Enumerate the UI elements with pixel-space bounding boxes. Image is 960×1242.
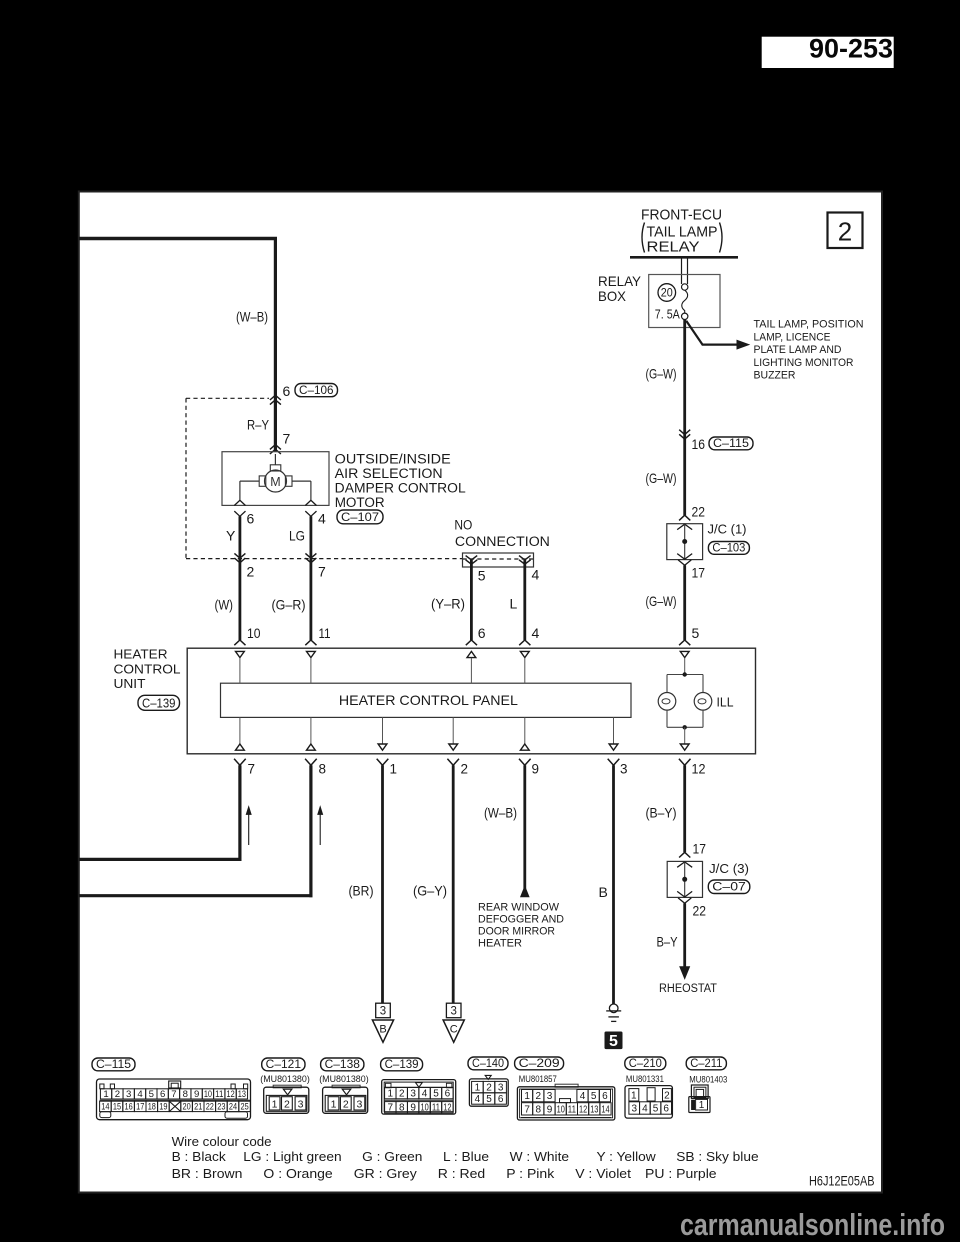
svg-text:B–Y: B–Y xyxy=(657,934,679,950)
svg-text:7: 7 xyxy=(171,1089,176,1100)
svg-text:RELAY: RELAY xyxy=(598,273,642,289)
svg-text:(W–B): (W–B) xyxy=(484,805,517,821)
connector C-209 pinout xyxy=(515,1057,564,1070)
svg-text:2: 2 xyxy=(536,1091,542,1102)
svg-text:(G–W): (G–W) xyxy=(646,593,677,609)
svg-text:4: 4 xyxy=(532,567,540,583)
svg-text:(B–Y): (B–Y) xyxy=(646,805,677,821)
svg-text:12: 12 xyxy=(692,762,706,777)
heater control panel box xyxy=(221,683,632,717)
svg-text:AIR SELECTION: AIR SELECTION xyxy=(335,466,443,481)
wire (G-Y) pin2 xyxy=(452,765,455,1003)
fuse 7.5A symbol xyxy=(682,284,688,290)
svg-text:1: 1 xyxy=(699,1100,705,1111)
ground symbol xyxy=(609,1004,618,1013)
svg-text:J/C (1): J/C (1) xyxy=(708,522,747,537)
svg-text:C–139: C–139 xyxy=(142,697,176,711)
svg-text:(G–Y): (G–Y) xyxy=(413,883,447,899)
svg-text:7: 7 xyxy=(248,762,256,777)
svg-text:CONTROL: CONTROL xyxy=(114,662,181,677)
svg-text:12: 12 xyxy=(443,1103,452,1114)
svg-text:23: 23 xyxy=(217,1101,225,1112)
svg-text:C–115: C–115 xyxy=(96,1059,131,1071)
svg-text:5: 5 xyxy=(486,1094,492,1105)
svg-text:(G–W): (G–W) xyxy=(646,470,677,486)
svg-text:7. 5A: 7. 5A xyxy=(655,307,680,322)
svg-text:3: 3 xyxy=(547,1091,553,1102)
svg-text:MU801857: MU801857 xyxy=(519,1074,557,1085)
wire pin8 exits left xyxy=(309,765,312,897)
svg-text:MU801403: MU801403 xyxy=(689,1074,727,1085)
svg-text:7: 7 xyxy=(524,1104,530,1115)
svg-text:CONNECTION: CONNECTION xyxy=(455,534,550,549)
svg-text:C–210: C–210 xyxy=(629,1058,662,1070)
svg-text:(G–W): (G–W) xyxy=(646,366,677,382)
svg-text:TAIL LAMP, POSITION: TAIL LAMP, POSITION xyxy=(754,319,864,331)
wire LG xyxy=(309,516,312,640)
svg-text:14: 14 xyxy=(601,1104,610,1115)
svg-text:1: 1 xyxy=(390,762,398,777)
fuse number circle 20 xyxy=(658,284,676,302)
svg-text:3: 3 xyxy=(298,1098,304,1110)
defogger feed arrow xyxy=(521,887,529,897)
lamp symbol right xyxy=(694,693,712,711)
svg-text:C–209: C–209 xyxy=(519,1058,560,1070)
wire (B-Y) pin12 xyxy=(683,765,686,852)
connector C-138 pinout xyxy=(321,1058,364,1071)
page number header 90-253 xyxy=(762,37,894,68)
svg-text:20: 20 xyxy=(661,288,673,300)
svg-text:25: 25 xyxy=(241,1101,249,1112)
svg-text:5: 5 xyxy=(478,568,486,584)
svg-text:1: 1 xyxy=(388,1089,394,1100)
svg-text:REAR WINDOW: REAR WINDOW xyxy=(478,901,560,913)
svg-text:6: 6 xyxy=(663,1104,669,1115)
svg-text:2: 2 xyxy=(486,1082,492,1093)
wire (BR) pin1 xyxy=(381,765,384,1003)
svg-text:C: C xyxy=(450,1024,458,1036)
chevrons pin 5 side xyxy=(466,556,478,560)
svg-text:11: 11 xyxy=(319,625,331,641)
svg-text:M: M xyxy=(270,475,280,489)
chevrons pin 4 side xyxy=(519,556,531,560)
svg-text:17: 17 xyxy=(693,841,707,857)
svg-text:9: 9 xyxy=(547,1104,553,1115)
svg-text:MOTOR: MOTOR xyxy=(335,495,385,510)
svg-text:(W): (W) xyxy=(215,597,234,613)
svg-text:RHEOSTAT: RHEOSTAT xyxy=(659,983,717,995)
svg-text:7: 7 xyxy=(283,431,291,447)
svg-text:14: 14 xyxy=(101,1101,110,1112)
svg-text:2: 2 xyxy=(461,762,469,777)
svg-text:RELAY: RELAY xyxy=(647,240,700,256)
svg-text:22: 22 xyxy=(692,504,706,520)
svg-text:90-253: 90-253 xyxy=(809,34,893,64)
svg-text:17: 17 xyxy=(136,1101,144,1112)
top edge pin triangles xyxy=(236,651,245,657)
svg-text:5: 5 xyxy=(653,1104,659,1115)
motor pin 4 fork xyxy=(305,500,316,505)
svg-text:2: 2 xyxy=(664,1090,670,1101)
svg-text:LG: LG xyxy=(289,528,305,544)
wire B pin3 to ground xyxy=(612,765,615,1004)
svg-text:5: 5 xyxy=(609,1033,618,1050)
svg-text:6: 6 xyxy=(602,1091,608,1102)
svg-text:16: 16 xyxy=(692,436,706,452)
svg-text:2: 2 xyxy=(115,1089,120,1100)
motor internal wires xyxy=(240,480,259,482)
svg-text:Y: Y xyxy=(226,528,236,544)
svg-text:9: 9 xyxy=(194,1089,199,1100)
svg-text:4: 4 xyxy=(137,1089,143,1100)
rheostat arrow xyxy=(680,967,690,979)
harness forks at heater pins 6 4 xyxy=(466,640,477,645)
svg-text:carmanualsonline.info: carmanualsonline.info xyxy=(680,1208,945,1242)
heater control unit box xyxy=(187,648,755,754)
svg-text:18: 18 xyxy=(148,1101,156,1112)
svg-text:4: 4 xyxy=(642,1104,648,1115)
svg-text:8: 8 xyxy=(183,1089,188,1100)
no-connection connector box xyxy=(463,553,534,567)
svg-text:2: 2 xyxy=(247,564,255,580)
svg-text:1: 1 xyxy=(524,1091,530,1102)
svg-text:C–121: C–121 xyxy=(266,1059,301,1071)
connector C-115 pin 16 chevrons xyxy=(679,430,690,435)
direction arrow on pin8 wire xyxy=(319,812,321,845)
svg-text:4: 4 xyxy=(532,625,540,641)
svg-text:UNIT: UNIT xyxy=(114,676,146,691)
svg-text:13: 13 xyxy=(590,1104,599,1115)
svg-text:2: 2 xyxy=(838,217,852,247)
connector label C-115 xyxy=(709,437,753,450)
svg-text:12: 12 xyxy=(226,1089,234,1100)
internal wires to panel (bottom) xyxy=(239,717,241,744)
connector C-121 pinout xyxy=(262,1058,305,1071)
harness fork at heater pin 5 xyxy=(679,640,690,645)
wire pin7 exits left xyxy=(238,765,241,861)
bus bar under FRONT-ECU xyxy=(630,256,738,259)
svg-text:12: 12 xyxy=(579,1104,588,1115)
wire (G-W) segment 3 xyxy=(683,565,686,640)
svg-text:9: 9 xyxy=(532,762,540,777)
svg-text:MU801331: MU801331 xyxy=(626,1074,664,1085)
svg-text:8: 8 xyxy=(399,1103,405,1114)
svg-text:(W–B): (W–B) xyxy=(236,309,268,325)
svg-text:C–140: C–140 xyxy=(472,1058,504,1070)
connector C-210 pinout xyxy=(625,1057,666,1070)
svg-text:C–115: C–115 xyxy=(713,438,749,450)
svg-text:11: 11 xyxy=(432,1103,441,1114)
svg-text:HEATER: HEATER xyxy=(114,647,168,662)
svg-text:C–106: C–106 xyxy=(299,385,334,397)
svg-text:(MU801380): (MU801380) xyxy=(260,1074,310,1085)
motor box OUTSIDE/INSIDE AIR SELECTION DAMPER CONTROL MOTOR xyxy=(222,452,329,506)
svg-text:3: 3 xyxy=(620,762,628,777)
svg-text:11: 11 xyxy=(215,1089,223,1100)
motor M symbol xyxy=(265,470,287,492)
svg-text:BR : Brown O : Orange GR :: BR : Brown O : Orange GR : Grey R : Red … xyxy=(172,1166,717,1181)
svg-text:NO: NO xyxy=(454,518,472,533)
svg-text:1: 1 xyxy=(103,1089,108,1100)
wire B-Y to rheostat xyxy=(683,903,686,968)
junction J/C(3) C-07 xyxy=(679,852,690,857)
svg-text:1: 1 xyxy=(272,1098,278,1110)
ILL lamps bracket xyxy=(667,674,703,676)
svg-text:Wire colour code: Wire colour code xyxy=(172,1134,272,1149)
svg-text:1: 1 xyxy=(331,1098,337,1110)
svg-text:19: 19 xyxy=(159,1101,167,1112)
svg-text:3: 3 xyxy=(380,1006,386,1018)
svg-text:10: 10 xyxy=(204,1089,212,1100)
connector label C-106 xyxy=(295,384,338,397)
zone box 2 xyxy=(828,213,863,249)
svg-text:7: 7 xyxy=(318,564,326,580)
svg-text:6: 6 xyxy=(160,1089,165,1100)
connector label C-139 xyxy=(138,695,180,710)
chevrons at dashed line pin 7 xyxy=(305,553,316,558)
direction arrow on pin7 wire xyxy=(248,812,250,845)
svg-text:DOOR MIRROR: DOOR MIRROR xyxy=(478,925,555,937)
svg-text:6: 6 xyxy=(498,1094,504,1105)
svg-text:3: 3 xyxy=(450,1006,456,1018)
svg-text:5: 5 xyxy=(149,1089,154,1100)
svg-text:21: 21 xyxy=(194,1101,202,1112)
connector C-139 pinout xyxy=(381,1058,423,1071)
svg-text:3: 3 xyxy=(126,1089,131,1100)
svg-text:3: 3 xyxy=(631,1104,637,1115)
svg-text:3: 3 xyxy=(498,1082,504,1093)
connector C-106 pin 6 chevrons xyxy=(270,395,281,400)
svg-text:TAIL LAMP: TAIL LAMP xyxy=(647,225,718,241)
ground zone marker 5 xyxy=(605,1032,623,1050)
bottom edge pin triangles xyxy=(236,744,245,750)
svg-text:LIGHTING MONITOR: LIGHTING MONITOR xyxy=(754,357,854,369)
svg-text:J/C (3): J/C (3) xyxy=(709,861,749,876)
svg-text:C–138: C–138 xyxy=(325,1059,360,1071)
harness forks below heater unit xyxy=(234,759,246,766)
svg-text:5: 5 xyxy=(692,625,700,641)
arrow to tail lamp circuit xyxy=(686,321,738,345)
connector C-115 pinout xyxy=(92,1058,135,1071)
svg-text:BOX: BOX xyxy=(598,288,627,304)
svg-text:9: 9 xyxy=(410,1103,416,1114)
harness forks below motor xyxy=(234,511,245,516)
svg-text:HEATER: HEATER xyxy=(478,937,522,949)
svg-text:13: 13 xyxy=(238,1089,246,1100)
svg-text:C–103: C–103 xyxy=(712,543,745,555)
svg-text:8: 8 xyxy=(319,762,327,777)
internal wires to panel (top) xyxy=(239,658,241,683)
relay coil double feed lines xyxy=(681,259,683,285)
svg-text:22: 22 xyxy=(206,1101,214,1112)
wire (W-B) pin9 to defogger xyxy=(523,765,526,889)
svg-text:4: 4 xyxy=(422,1089,428,1100)
svg-text:(MU801380): (MU801380) xyxy=(319,1074,369,1085)
svg-text:ILL: ILL xyxy=(717,696,734,710)
connector 3-C at wire pin2 xyxy=(446,1003,461,1018)
svg-text:6: 6 xyxy=(478,625,486,641)
svg-text:B: B xyxy=(599,884,608,900)
svg-text:DEFOGGER AND: DEFOGGER AND xyxy=(478,913,564,925)
svg-text:(G–R): (G–R) xyxy=(272,597,306,613)
svg-text:1: 1 xyxy=(631,1090,637,1101)
svg-text:DAMPER CONTROL: DAMPER CONTROL xyxy=(335,480,467,495)
svg-text:6: 6 xyxy=(445,1089,451,1100)
wire (W-B) feed from page left xyxy=(79,237,277,240)
svg-text:R–Y: R–Y xyxy=(247,417,270,433)
svg-text:5: 5 xyxy=(591,1091,597,1102)
main diagram white panel xyxy=(79,192,882,1193)
svg-text:LAMP, LICENCE: LAMP, LICENCE xyxy=(754,331,831,343)
dashed boundary of damper control group xyxy=(186,397,269,399)
svg-text:10: 10 xyxy=(247,625,261,641)
svg-text:(BR): (BR) xyxy=(349,883,374,899)
svg-text:10: 10 xyxy=(557,1104,566,1115)
svg-text:(Y–R): (Y–R) xyxy=(431,596,465,612)
relay box outline xyxy=(649,275,720,328)
svg-text:3: 3 xyxy=(410,1089,416,1100)
svg-text:1: 1 xyxy=(475,1082,481,1093)
junction J/C(1) C-103 xyxy=(679,515,690,520)
wire (G-W) from fuse down to C-115 xyxy=(683,320,686,516)
wire Y xyxy=(238,516,241,640)
connector label C-107 xyxy=(337,510,383,524)
svg-text:4: 4 xyxy=(475,1094,481,1105)
connector C-107 pin 7 chevrons xyxy=(270,445,281,450)
svg-text:7: 7 xyxy=(388,1103,394,1114)
svg-text:4: 4 xyxy=(580,1091,586,1102)
svg-text:24: 24 xyxy=(229,1101,238,1112)
svg-text:C–107: C–107 xyxy=(341,510,379,524)
connector C-140 pinout xyxy=(468,1057,508,1070)
svg-text:4: 4 xyxy=(318,511,326,527)
svg-text:11: 11 xyxy=(568,1104,577,1115)
svg-text:OUTSIDE/INSIDE: OUTSIDE/INSIDE xyxy=(335,451,451,466)
svg-text:2: 2 xyxy=(343,1098,349,1110)
svg-text:10: 10 xyxy=(420,1103,429,1114)
svg-text:17: 17 xyxy=(692,565,706,581)
svg-text:20: 20 xyxy=(183,1101,191,1112)
chevrons at dashed line pin 2 xyxy=(234,553,245,558)
svg-text:C–211: C–211 xyxy=(690,1058,722,1070)
svg-text:8: 8 xyxy=(536,1104,542,1115)
svg-text:C–07: C–07 xyxy=(712,882,746,894)
svg-text:6: 6 xyxy=(283,383,291,399)
svg-text:PLATE LAMP AND: PLATE LAMP AND xyxy=(754,344,842,356)
svg-text:H6J12E05AB: H6J12E05AB xyxy=(809,1173,875,1188)
svg-text:2: 2 xyxy=(399,1089,405,1100)
motor pin 6 fork xyxy=(234,500,245,505)
svg-text:22: 22 xyxy=(693,903,707,919)
lamp symbol left xyxy=(658,693,676,711)
svg-text:C–139: C–139 xyxy=(385,1059,419,1071)
svg-text:3: 3 xyxy=(356,1098,362,1110)
svg-text:6: 6 xyxy=(247,511,255,527)
wire (Y-R) xyxy=(470,560,473,640)
svg-text:B : Black LG : Light green: B : Black LG : Light green G : Green L :… xyxy=(172,1149,759,1164)
connector 3-B at wire pin1 xyxy=(376,1003,391,1018)
harness forks at heater pins 10 11 xyxy=(234,640,245,645)
svg-text:16: 16 xyxy=(125,1101,133,1112)
connector C-211 pinout xyxy=(686,1057,726,1070)
svg-text:5: 5 xyxy=(433,1089,439,1100)
svg-text:BUZZER: BUZZER xyxy=(754,370,796,382)
svg-text:2: 2 xyxy=(284,1098,290,1110)
svg-text:HEATER CONTROL PANEL: HEATER CONTROL PANEL xyxy=(339,692,518,708)
svg-text:L: L xyxy=(510,596,518,612)
svg-text:B: B xyxy=(379,1024,386,1036)
svg-text:FRONT-ECU: FRONT-ECU xyxy=(641,208,722,224)
svg-text:15: 15 xyxy=(113,1101,121,1112)
wire L xyxy=(523,560,526,640)
